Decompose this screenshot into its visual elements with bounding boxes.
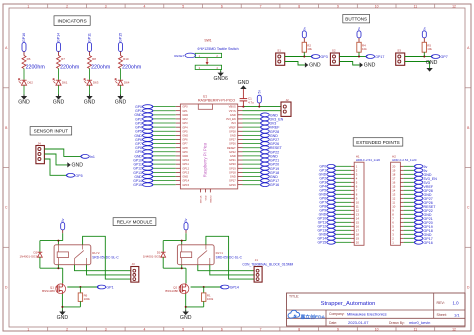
- svg-text:Drawn By:: Drawn By:: [389, 321, 405, 325]
- resistor R8 220ohm: [88, 56, 111, 71]
- wire GP left pin 14: [153, 159, 176, 161]
- resistor R1 100k: [202, 287, 214, 307]
- wire header pin 12: [335, 209, 351, 211]
- wire: [220, 70, 222, 73]
- transistor Q2 BSS138K: [165, 283, 189, 294]
- wire header pin 20: [335, 241, 351, 243]
- svg-text:220ohm: 220ohm: [91, 65, 111, 71]
- svg-text:micr0_kevin: micr0_kevin: [409, 320, 430, 325]
- net label GP26: [414, 200, 432, 204]
- svg-text:GP21: GP21: [229, 158, 236, 162]
- wire header pin 7: [335, 189, 351, 191]
- svg-text:GP6: GP6: [182, 138, 188, 142]
- svg-text:GP22: GP22: [229, 150, 236, 154]
- svg-text:6*6*125MD Tactile Switch: 6*6*125MD Tactile Switch: [198, 47, 239, 51]
- LED D61: [53, 79, 68, 86]
- wire source to ground: [61, 294, 80, 312]
- net label GP0: [319, 164, 335, 168]
- resistor R10 220ohm: [119, 56, 142, 71]
- wire header pin 20: [404, 165, 415, 167]
- net label RESET: [414, 204, 436, 208]
- svg-text:D: D: [467, 285, 470, 289]
- net label GND: [261, 154, 279, 158]
- net label GP4: [135, 125, 153, 129]
- svg-text:1/1: 1/1: [454, 312, 460, 317]
- wire right pin 5: [243, 122, 261, 124]
- net label GP27: [261, 138, 280, 142]
- svg-text:Raspberry Pi Pico: Raspberry Pi Pico: [203, 142, 208, 177]
- svg-text:1.0: 1.0: [453, 300, 460, 305]
- wire: [120, 69, 122, 80]
- svg-text:GP15: GP15: [318, 241, 327, 245]
- net label RESET: [261, 146, 283, 150]
- net label GND: [414, 172, 432, 176]
- switch connector S3: [396, 48, 405, 65]
- svg-text:GP16: GP16: [229, 183, 236, 187]
- wire right pin 3: [243, 114, 261, 116]
- net flag GP16: [22, 33, 26, 56]
- net label GND: [414, 192, 432, 196]
- net label RESET: [174, 53, 195, 58]
- svg-text:GP3: GP3: [182, 121, 188, 125]
- svg-text:12: 12: [452, 328, 456, 332]
- ground GND6: [213, 71, 228, 82]
- switch connector S1: [276, 48, 285, 65]
- wire header pin 18: [404, 173, 415, 175]
- wire GP left pin 18: [153, 175, 176, 177]
- wire GP left pin 5: [153, 122, 176, 124]
- wire header pin 5: [335, 181, 351, 183]
- net label GP3: [135, 121, 153, 125]
- wire GP left pin 6: [153, 126, 176, 128]
- svg-text:A: A: [467, 46, 470, 50]
- svg-text:GND: GND: [182, 154, 188, 158]
- svg-text:GND: GND: [115, 99, 127, 105]
- net flag GP14: [57, 33, 61, 56]
- wire: [163, 233, 186, 245]
- svg-text:J1: J1: [255, 258, 258, 262]
- resistor R6 2200hm: [22, 56, 45, 71]
- net label In1: [81, 155, 95, 159]
- svg-text:3: 3: [105, 328, 107, 332]
- svg-text:6: 6: [221, 4, 223, 8]
- wire GP left pin 9: [153, 138, 176, 140]
- net label GP0: [135, 105, 153, 109]
- wire header pin 1: [404, 241, 415, 243]
- wire: [89, 69, 91, 80]
- wire: [285, 62, 305, 66]
- resistor R5 10k: [422, 42, 432, 52]
- resistor R7 220ohm: [57, 56, 80, 71]
- ground: [18, 95, 30, 106]
- switch connector S2: [330, 48, 339, 65]
- svg-text:2023-01-07: 2023-01-07: [348, 320, 369, 325]
- wire right pin 4: [243, 118, 261, 120]
- ground: [53, 95, 65, 106]
- svg-text:GP1: GP1: [182, 109, 188, 113]
- svg-text:7: 7: [260, 4, 262, 8]
- net label GP18: [414, 228, 432, 232]
- switch SW1 6*6*125MD Tactile Switch: [195, 39, 238, 70]
- svg-text:GP13: GP13: [182, 170, 189, 174]
- svg-text:1N4001-SG34: 1N4001-SG34: [143, 255, 163, 259]
- svg-text:GP12: GP12: [182, 166, 189, 170]
- section label INDICATORS: [54, 16, 90, 26]
- svg-text:8: 8: [298, 328, 300, 332]
- svg-text:10k: 10k: [427, 47, 432, 51]
- wire header pin 8: [335, 193, 351, 195]
- wire gate: [191, 286, 221, 288]
- svg-text:GP16: GP16: [22, 33, 26, 42]
- svg-text:5: 5: [182, 4, 184, 8]
- net label GP6: [135, 138, 153, 142]
- svg-text:GP26: GP26: [229, 142, 236, 146]
- svg-text:3: 3: [105, 4, 107, 8]
- svg-text:S3: S3: [397, 48, 401, 52]
- wire header pin 7: [404, 217, 415, 219]
- svg-text:11: 11: [414, 4, 418, 8]
- wire header pin 3: [404, 233, 415, 235]
- svg-text:20: 20: [356, 240, 360, 244]
- wire: [120, 85, 122, 96]
- wire gate: [67, 286, 97, 288]
- net label GND: [261, 133, 279, 137]
- wire GP left pin 10: [153, 143, 176, 145]
- section label RELAY MODULE: [113, 218, 156, 226]
- svg-text:SWCLK: SWCLK: [201, 195, 203, 203]
- net label GP11: [133, 162, 152, 166]
- wire right pin 9: [243, 138, 261, 140]
- svg-text:嘉立创EDA: 嘉立创EDA: [300, 313, 326, 320]
- net label 3V3_EN: [261, 117, 284, 121]
- svg-text:Date:: Date:: [329, 321, 337, 325]
- net label GP2: [135, 117, 153, 121]
- svg-text:A: A: [5, 46, 8, 50]
- net label GP22: [414, 208, 432, 212]
- svg-text:2200hm: 2200hm: [26, 65, 46, 71]
- wire GP left pin 17: [153, 171, 176, 173]
- svg-text:4: 4: [144, 328, 146, 332]
- wire GP left pin 16: [153, 167, 176, 169]
- svg-text:9: 9: [337, 4, 339, 8]
- wire GP left pin 2: [153, 110, 176, 112]
- svg-text:GP14: GP14: [230, 286, 239, 290]
- svg-text:D62: D62: [27, 80, 33, 84]
- svg-text:6: 6: [221, 328, 223, 332]
- net label GP20: [261, 162, 280, 166]
- svg-text:GND: GND: [57, 315, 69, 321]
- LED D62: [18, 79, 33, 86]
- svg-text:GND: GND: [18, 99, 30, 105]
- svg-text:GP0: GP0: [182, 105, 188, 109]
- svg-text:GND: GND: [230, 113, 236, 117]
- net label GP13: [133, 170, 153, 174]
- svg-text:HDR-F-2.54_1x20: HDR-F-2.54_1x20: [356, 158, 381, 162]
- net label GP14: [318, 236, 336, 240]
- svg-text:100k: 100k: [207, 297, 214, 301]
- net label GP9: [319, 208, 335, 212]
- wire: [40, 233, 63, 245]
- net label GP8: [319, 204, 335, 208]
- svg-text:R6: R6: [27, 57, 31, 61]
- svg-text:GND: GND: [230, 154, 236, 158]
- svg-text:10: 10: [375, 328, 379, 332]
- svg-text:B: B: [5, 126, 8, 130]
- net label 5v: [414, 164, 427, 168]
- terminal block J3: [131, 262, 139, 282]
- net label GP12: [318, 224, 336, 228]
- wire header pin 2: [335, 169, 351, 171]
- wire right pin 16: [243, 167, 261, 169]
- wire header pin 6: [404, 221, 415, 223]
- wire coil to mosfet: [40, 265, 63, 284]
- net label GP9: [135, 150, 153, 154]
- svg-text:GP18: GP18: [229, 170, 236, 174]
- net label GP18: [261, 170, 280, 174]
- wire GP left pin 19: [153, 180, 176, 182]
- net label GP7: [431, 55, 447, 59]
- svg-text:9: 9: [337, 328, 339, 332]
- net flag 5v button: [357, 26, 361, 42]
- net label 5v: [414, 168, 427, 172]
- svg-text:12: 12: [452, 4, 456, 8]
- svg-text:GP5: GP5: [182, 129, 188, 133]
- svg-text:VBUS: VBUS: [229, 105, 236, 109]
- net label GP21: [261, 158, 280, 162]
- wire right pin 18: [243, 175, 261, 177]
- wire GP left pin 1: [153, 106, 176, 108]
- svg-text:3V3: 3V3: [231, 121, 236, 125]
- svg-text:SRD-05VDC-SL-C: SRD-05VDC-SL-C: [216, 255, 243, 259]
- svg-text:SENSOR INPUT: SENSOR INPUT: [34, 129, 69, 134]
- section label SENSOR INPUT: [30, 127, 72, 135]
- wire header pin 8: [404, 213, 415, 215]
- svg-text:GND: GND: [230, 133, 236, 137]
- svg-text:GP5: GP5: [75, 174, 82, 178]
- svg-text:220ohm: 220ohm: [122, 65, 142, 71]
- wire header pin 11: [404, 201, 415, 203]
- svg-text:GND: GND: [182, 133, 188, 137]
- diode D1 1N4001-SG34: [143, 241, 166, 269]
- svg-text:CON_TERMINAL_BLOCK_03.5MM: CON_TERMINAL_BLOCK_03.5MM: [242, 263, 293, 267]
- wire GP left pin 4: [153, 118, 176, 120]
- net label GP14: [133, 179, 153, 183]
- net label GND: [414, 232, 432, 236]
- svg-text:VSYS: VSYS: [229, 109, 236, 113]
- svg-text:GND: GND: [230, 175, 236, 179]
- svg-text:J4: J4: [38, 141, 42, 145]
- net label GP5: [66, 173, 82, 177]
- svg-text:RLY1: RLY1: [216, 251, 224, 255]
- wire VBUS: [242, 106, 281, 108]
- svg-text:8: 8: [298, 4, 300, 8]
- svg-text:3V3_EN: 3V3_EN: [226, 117, 236, 121]
- diode D2 1N4001-SG34: [20, 241, 43, 269]
- net label GP4: [319, 184, 335, 188]
- wire header pin 13: [404, 193, 415, 195]
- wire: [339, 52, 366, 57]
- svg-text:C: C: [5, 206, 8, 210]
- ground: [426, 60, 438, 72]
- resistor R2 10k: [302, 42, 312, 52]
- wire header pin 3: [335, 173, 351, 175]
- svg-text:1N4001-SG34: 1N4001-SG34: [20, 255, 40, 259]
- svg-text:GP9: GP9: [182, 150, 188, 154]
- net label GP21: [414, 216, 432, 220]
- svg-text:100k: 100k: [84, 297, 91, 301]
- net flag 5v button: [302, 26, 306, 42]
- svg-text:GP4: GP4: [182, 125, 188, 129]
- ground: [180, 310, 192, 321]
- svg-text:GP7: GP7: [441, 55, 448, 59]
- svg-text:J3: J3: [132, 262, 136, 266]
- net label GND: [319, 232, 336, 236]
- wire right pin 6: [243, 126, 261, 128]
- net label GP10: [318, 216, 336, 220]
- wire relay contacts: [75, 236, 131, 279]
- net label GP11: [318, 220, 336, 224]
- svg-text:1: 1: [27, 4, 29, 8]
- svg-text:BSS138K: BSS138K: [165, 289, 178, 293]
- svg-text:GND: GND: [72, 163, 84, 169]
- ground: [67, 162, 83, 168]
- svg-text:RESET: RESET: [227, 146, 236, 150]
- net label GP17: [414, 236, 432, 240]
- svg-text:EXTENDED POINTS: EXTENDED POINTS: [356, 140, 399, 145]
- svg-text:4: 4: [144, 4, 146, 8]
- wire sensor pin1: [44, 149, 80, 156]
- net label GND: [319, 172, 336, 176]
- net label VREF: [261, 125, 281, 129]
- net label GND: [319, 192, 336, 196]
- svg-text:In1: In1: [90, 155, 95, 159]
- svg-text:S2: S2: [332, 48, 336, 52]
- resistor R4 10k: [357, 42, 367, 52]
- EasyEDA logo: [288, 310, 326, 320]
- wire header pin 10: [404, 205, 415, 207]
- wire header pin 19: [335, 237, 351, 239]
- net label GND: [261, 175, 279, 179]
- title block: [287, 293, 466, 326]
- svg-text:GP7: GP7: [182, 142, 188, 146]
- svg-text:GND: GND: [364, 63, 376, 69]
- wire header pin 18: [335, 233, 351, 235]
- wire coil to mosfet: [163, 265, 186, 284]
- svg-text:GP2: GP2: [182, 117, 188, 121]
- net label GND: [134, 133, 153, 137]
- svg-text:5v: 5v: [357, 26, 361, 30]
- terminal block J1: [242, 258, 293, 282]
- resistor R6 100k: [78, 287, 90, 307]
- net flag 5v: [257, 90, 261, 107]
- net label GP26: [261, 142, 280, 146]
- wire header pin 14: [404, 189, 415, 191]
- wire header pin 4: [404, 229, 415, 231]
- svg-text:S1: S1: [277, 48, 281, 52]
- net label GP20: [414, 220, 432, 224]
- svg-text:D61: D61: [62, 80, 68, 84]
- wire: [58, 85, 60, 96]
- wire header pin 17: [404, 177, 415, 179]
- wire right pin 15: [243, 163, 261, 165]
- wire right pin 11: [243, 147, 261, 149]
- svg-text:GND: GND: [309, 63, 321, 69]
- wire header pin 12: [404, 197, 415, 199]
- wire right pin 14: [243, 159, 261, 161]
- svg-text:GP14: GP14: [57, 33, 61, 42]
- svg-text:R8: R8: [92, 57, 96, 61]
- svg-text:5v: 5v: [184, 218, 188, 222]
- svg-text:SWDIO: SWDIO: [210, 195, 212, 203]
- svg-text:2: 2: [66, 328, 68, 332]
- svg-text:BSS138K: BSS138K: [42, 289, 55, 293]
- svg-text:10k: 10k: [307, 47, 312, 51]
- svg-text:GP15: GP15: [119, 33, 123, 42]
- svg-text:5: 5: [182, 328, 184, 332]
- svg-text:1: 1: [27, 328, 29, 332]
- wire header pin 15: [404, 185, 415, 187]
- svg-text:GP16: GP16: [270, 183, 279, 187]
- section label EXTENDED POINTS: [353, 138, 403, 146]
- svg-text:5v: 5v: [258, 90, 262, 94]
- net label GND: [134, 113, 153, 117]
- svg-text:GP15: GP15: [133, 183, 142, 187]
- net label GP10: [133, 158, 153, 162]
- wire GP left pin 13: [153, 155, 176, 157]
- wire: [58, 69, 60, 80]
- op-amp U1 RASPBERRY-PI-PICO body: [176, 95, 243, 204]
- net label GP1: [135, 109, 153, 113]
- net label GP17: [366, 55, 384, 59]
- svg-text:220ohm: 220ohm: [60, 65, 80, 71]
- connector J4 sensor: [36, 141, 45, 163]
- net label GP28: [414, 188, 432, 192]
- wire right pin 13: [243, 155, 261, 157]
- wire sensor pin3: [44, 159, 66, 175]
- net label GP5: [319, 188, 335, 192]
- svg-text:GP27: GP27: [229, 138, 236, 142]
- wire right pin 19: [243, 180, 261, 182]
- svg-text:10k: 10k: [362, 47, 367, 51]
- net label GP16: [414, 240, 432, 244]
- net label GP28: [261, 129, 280, 133]
- net label GND: [134, 175, 153, 179]
- svg-text:Strapper_Automation: Strapper_Automation: [321, 301, 376, 307]
- svg-text:10: 10: [375, 4, 379, 8]
- wire header pin 11: [335, 205, 351, 207]
- svg-text:GND: GND: [426, 60, 438, 66]
- net label GP14: [221, 285, 239, 289]
- svg-text:BUTTONS: BUTTONS: [345, 17, 367, 22]
- svg-text:GND: GND: [205, 195, 207, 200]
- svg-text:GP14: GP14: [182, 179, 189, 183]
- svg-text:7: 7: [260, 328, 262, 332]
- wire: [405, 62, 430, 69]
- wire GP left pin 20: [153, 184, 176, 186]
- wire GP left pin 3: [153, 114, 176, 116]
- svg-text:GP1: GP1: [106, 286, 113, 290]
- wire header pin 13: [335, 213, 351, 215]
- svg-text:REV:: REV:: [437, 301, 445, 305]
- svg-text:B: B: [467, 126, 470, 130]
- ground: [84, 95, 96, 106]
- net label GP1: [319, 168, 335, 172]
- svg-text:TITLE:: TITLE:: [289, 295, 299, 299]
- svg-text:GND: GND: [182, 113, 188, 117]
- svg-text:HDR-F-2.54_1x20: HDR-F-2.54_1x20: [392, 158, 417, 162]
- svg-text:RASPBERRY-PI-PICO: RASPBERRY-PI-PICO: [198, 99, 235, 103]
- svg-text:GND: GND: [180, 315, 192, 321]
